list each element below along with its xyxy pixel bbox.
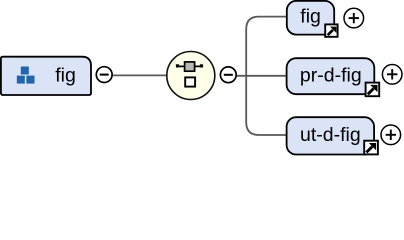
expand toggle plus (top) xyxy=(344,8,364,28)
svg-text:ut-d-fig: ut-d-fig xyxy=(300,124,361,146)
node fig (top right) xyxy=(287,1,334,35)
svg-text:pr-d-fig: pr-d-fig xyxy=(300,65,362,87)
expand toggle plus (bottom) xyxy=(381,125,401,145)
collapse toggle minus1 xyxy=(96,67,112,83)
link icon of node ut-d-fig xyxy=(364,141,378,155)
wire middle branch to pr-d-fig xyxy=(237,75,288,77)
link icon of node fig xyxy=(325,24,337,36)
svg-text:fig: fig xyxy=(55,65,76,87)
content-model circle xyxy=(167,52,215,100)
node pr-d-fig xyxy=(287,58,375,94)
wire trunk with branches to fig and ut-d-fig xyxy=(246,17,287,135)
expand toggle plus (middle) xyxy=(382,65,402,85)
node ut-d-fig xyxy=(287,117,375,154)
link icon of node pr-d-fig xyxy=(366,83,380,97)
collapse toggle minus2 xyxy=(220,67,236,83)
svg-text:fig: fig xyxy=(300,6,321,28)
wire from minus1 to content-model circle xyxy=(111,74,167,76)
node fig (left root) xyxy=(1,57,91,95)
